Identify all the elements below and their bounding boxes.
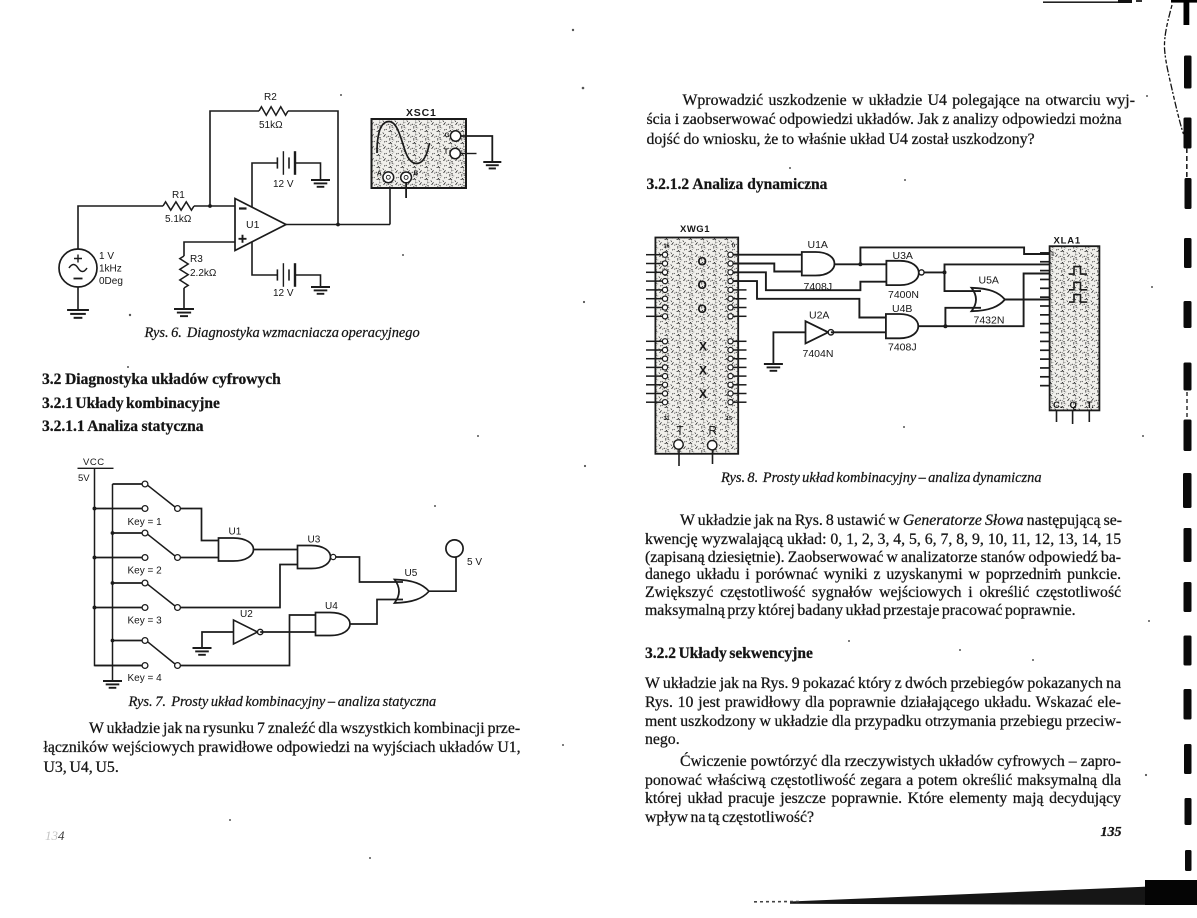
svg-text:Q: Q [1070,400,1077,411]
wire U4 output to U5 input B [350,600,403,625]
svg-text:1: 1 [1052,252,1055,258]
svg-text:XSC1: XSC1 [406,107,437,119]
svg-text:7408J: 7408J [888,342,917,354]
svg-text:15: 15 [726,416,732,422]
OR gate U5A [972,288,1005,311]
ground at negative supply [311,287,330,294]
wire U3 output to U5 input A [336,557,403,582]
ground at positive supply [311,180,330,187]
node U4B output [943,324,947,328]
wire R3 to ground [183,288,185,309]
wire XWG1 pin2 to U3A input B [733,272,886,290]
svg-text:U5: U5 [405,568,418,579]
wire output up to scope channel A [389,183,391,225]
junction dots on bus [93,606,97,610]
svg-text:7404N: 7404N [803,348,834,360]
svg-text:U2: U2 [240,609,253,620]
node dots common bus [111,531,115,535]
AND gate U1 [219,538,254,561]
XWG1 right pins [728,252,747,405]
svg-text:X: X [699,340,707,354]
scan artifact: right edge dashes [1183,56,1192,872]
scope terminal T [450,148,460,158]
NAND gate U3A [886,261,918,285]
scan artifact: top edge line [1043,1,1119,3]
svg-text:1kHz: 1kHz [99,264,122,275]
wire scope T stub [461,153,477,155]
wire non-inverting input to R3 [184,242,235,256]
svg-text:U4: U4 [325,601,338,612]
node dots VCC bus [93,507,97,511]
wire U5 output to probe [429,557,456,591]
NOT gate U2A [806,321,829,343]
svg-text:5.1kΩ: 5.1kΩ [165,214,192,225]
wire U4B output [918,325,945,327]
wire op-amp output [286,224,390,226]
svg-text:U3A: U3A [893,250,913,262]
scan artifact: bottom wedge bar [790,885,1197,906]
wire U3A output to XLA1 pin2 [945,264,1050,272]
svg-text:B: B [414,170,419,177]
svg-text:Key = 1: Key = 1 [128,517,163,528]
svg-text:12 V: 12 V [273,179,294,190]
wire scope B stub [405,183,407,198]
word generator XWG1 [655,238,738,454]
svg-text:2.2kΩ: 2.2kΩ [190,268,217,279]
svg-text:5 V: 5 V [467,557,482,568]
AC source V1 1V 1kHz [59,249,97,287]
junction dots on bus [93,556,97,560]
svg-text:7432N: 7432N [974,315,1005,327]
wire U2A output to U4B input B [831,331,886,333]
svg-text:5V: 5V [78,473,90,484]
svg-text:U2A: U2A [809,310,829,322]
wire XWG1 pin3 to U4B input A [733,281,886,317]
svg-text:7408J: 7408J [804,281,833,293]
op-amp U1 [235,199,286,251]
wire U1A output to XLA1 pin1 [860,247,1049,264]
OR gate U5 [395,580,430,604]
XLA1 waveform icons [1069,267,1087,275]
wire XWG1 pin0 to U1A input A [733,254,802,256]
svg-text:1 V: 1 V [99,251,114,262]
switch J1 (Key = 1) [95,481,181,511]
svg-text:VCC: VCC [83,457,105,468]
AND gate U4B [886,314,918,338]
AND gate U1A [802,252,835,276]
ground under source [67,310,89,318]
svg-text:O: O [698,302,707,316]
ground under R3 [174,309,194,316]
wire U5A output to XLA1 pin4 [1005,299,1050,301]
wire U1 output to U3 [254,549,298,551]
probe lamp 5V [446,540,463,557]
AND gate U4 [316,613,351,636]
NAND gate U3 [298,546,331,569]
ground at U2A input [764,364,783,371]
svg-text:T: T [444,148,448,155]
wire ground to U2 [202,632,234,648]
svg-text:Key = 2: Key = 2 [128,566,163,577]
ground of key bus [103,681,122,688]
svg-text:A: A [377,170,382,177]
wire U4B output to U5A input B [945,308,981,326]
wire source to ground [77,287,79,310]
wire VCC bus vertical [95,468,146,665]
node U3A output [943,270,947,274]
svg-text:16: 16 [664,244,670,250]
wire key1 to U1 input A [181,509,219,541]
node U1A output [858,262,862,266]
wire U3A output [924,271,944,273]
XLA1 bottom stubs [1056,410,1058,422]
svg-text:Key = 3: Key = 3 [128,616,163,627]
svg-text:12 V: 12 V [273,288,294,299]
scope terminal G [450,131,460,141]
svg-text:O: O [698,278,707,292]
wire battery2 to ground [295,275,321,287]
wire key3 to U3 input B [181,565,298,608]
wire U2 output to U4 input B [260,631,315,633]
resistor R1 [163,202,194,210]
wire U4B output to XLA1 pin3 [945,274,1049,327]
wire ground to U2A [773,332,805,364]
svg-text:X: X [699,387,707,401]
svg-text:XWG1: XWG1 [680,224,710,235]
scope terminal A [383,172,394,183]
wire source to R1 [78,206,163,249]
XLA1 input pin ticks [1040,253,1050,386]
svg-text:U1: U1 [246,219,260,231]
battery 12V positive supply [277,151,295,175]
svg-text:U1: U1 [229,527,242,538]
svg-text:R3: R3 [190,254,203,265]
svg-text:T.: T. [1087,400,1094,411]
svg-text:G: G [445,132,450,139]
svg-text:U3: U3 [308,535,321,546]
svg-text:31: 31 [664,416,670,422]
svg-text:R2: R2 [264,92,277,103]
ground at U2 input [193,648,212,655]
scan artifact: top right corner [1171,0,1197,3]
switch J2 (Key = 2) [95,530,181,560]
wire op-amp V+ pin to battery [252,163,277,207]
scope terminal B [401,172,412,183]
svg-text:U4B: U4B [892,303,912,315]
resistor R2 [259,107,288,115]
wire key2 to U1 input B [181,557,219,559]
svg-text:7400N: 7400N [888,289,919,301]
wire R2 to output node [288,111,338,225]
node: feedback junction [208,204,212,208]
XWG1 left pins [646,252,668,405]
wire R1 to op-amp inverting input [194,205,235,207]
ground at scope [483,162,501,168]
svg-text:R: R [709,426,717,438]
wire common bus vertical to ground [112,484,114,681]
svg-text:Key = 4: Key = 4 [128,673,163,684]
switch J4 (Key = 4) [95,638,181,669]
svg-text:U5A: U5A [979,275,999,287]
junction dots on bus [93,507,97,511]
wire XWG1 pin1 to U1A input B [733,264,802,272]
oscilloscope XSC1 [372,107,467,188]
scan noise dots [127,29,1153,859]
wire key4 to U4 input A [181,615,316,666]
NOT gate U2 [234,620,258,644]
wire U1A output to U3A input A [835,263,887,265]
logic analyzer XLA1 [1050,246,1100,410]
svg-text:X: X [699,363,707,377]
svg-text:0: 0 [732,244,735,250]
battery 12V negative supply [277,263,295,287]
wire scope G to ground [461,136,492,162]
scan artifact: curved hair line [1164,5,1183,134]
wire U3A output to U5A input A [945,272,982,291]
wire battery to ground [295,163,321,180]
wire op-amp V- pin to battery [252,242,277,275]
resistor R3 [180,256,188,288]
svg-text:C.: C. [1053,400,1063,411]
svg-text:0Deg: 0Deg [99,276,123,287]
wire feedback vertical [210,111,259,206]
svg-text:O: O [698,255,707,269]
switch J3 (Key = 3) [95,580,181,610]
svg-text:XLA1: XLA1 [1054,236,1081,247]
svg-text:U1A: U1A [808,239,828,251]
svg-text:51kΩ: 51kΩ [259,120,283,131]
svg-text:T: T [677,426,684,438]
svg-text:R1: R1 [172,190,185,201]
